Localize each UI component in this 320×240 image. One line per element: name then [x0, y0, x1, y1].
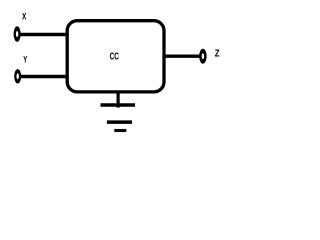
wire Y input	[20, 75, 68, 78]
ground bar 2	[107, 120, 132, 124]
svg-text:Y: Y	[23, 55, 27, 65]
wire X input	[19, 33, 67, 36]
terminal Z	[199, 49, 207, 64]
ground bar 3	[114, 129, 126, 132]
terminal X	[14, 26, 21, 41]
svg-text:X: X	[22, 12, 26, 22]
svg-text:CC: CC	[110, 51, 119, 62]
ground stem	[116, 92, 119, 108]
current conveyor block CC	[67, 21, 164, 92]
terminal Y	[14, 69, 21, 83]
ground	[101, 92, 136, 131]
svg-text:Z: Z	[215, 48, 220, 59]
ground bar 1	[101, 103, 136, 106]
wire Z output	[164, 55, 201, 58]
